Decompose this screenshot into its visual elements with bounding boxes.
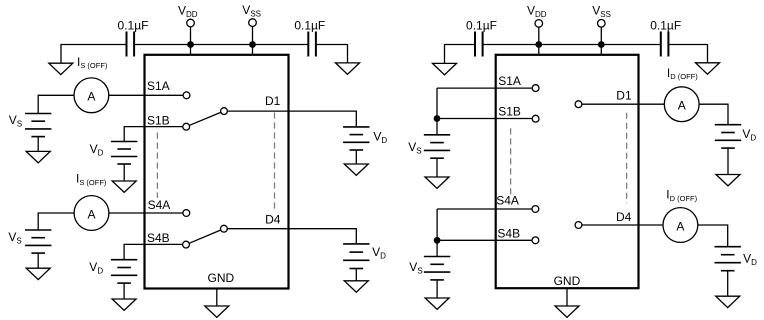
svg-text:IS (OFF): IS (OFF)	[77, 55, 108, 70]
wire: D1 to VD2	[228, 111, 357, 127]
label: VS1	[9, 113, 22, 129]
ground: below VD1	[112, 181, 136, 192]
svg-text:S4B: S4B	[497, 226, 520, 240]
svg-text:VS: VS	[9, 113, 22, 129]
wire: ammeter A2 to VS2	[38, 213, 74, 230]
wire: source tie vertical S4A/S4B	[436, 209, 438, 257]
ground: GND pin (left)	[205, 306, 229, 317]
svg-text:ID (OFF): ID (OFF)	[666, 188, 697, 203]
capacitor C3 0.1uF (right circuit left bypass)	[475, 32, 483, 57]
junction: VSS node (right)	[598, 41, 605, 48]
svg-text:IS (OFF): IS (OFF)	[76, 172, 107, 187]
svg-text:VD: VD	[90, 142, 104, 158]
wire: C2 to top-right ground drop	[316, 45, 348, 63]
wire: VSS node to C4	[601, 44, 661, 46]
IC body U2 (right DUT box)	[496, 55, 639, 288]
label: C4 value 0.1µF	[650, 18, 681, 32]
label: ID(OFF) upper	[667, 66, 698, 81]
pin D4 (right)	[575, 222, 582, 229]
wire: VD1 to pin S1B	[124, 127, 182, 142]
label: VDD (right)	[527, 4, 547, 20]
wire: ammeter A1 to pin S1A	[109, 94, 183, 96]
label: VSS (right)	[592, 4, 611, 20]
svg-text:S4A: S4A	[496, 194, 519, 208]
svg-text:VSS: VSS	[592, 4, 611, 20]
left circuit: switch leakage test (IS OFF)	[8, 3, 387, 318]
battery VD5	[715, 125, 741, 175]
pin S1A (left)	[183, 92, 190, 99]
pin S4A (left)	[183, 210, 190, 217]
right circuit: drain leakage test (ID OFF)	[408, 4, 757, 318]
label: S4B (right)	[497, 226, 520, 240]
svg-text:VDD: VDD	[527, 4, 547, 20]
pin D1 (right)	[575, 101, 582, 108]
battery VS4	[424, 257, 450, 299]
label: IS(OFF) lower	[76, 172, 107, 187]
junction: VDD node (left)	[187, 41, 194, 48]
dashed line: D-side channels 2..3 (left box)	[274, 112, 276, 208]
battery VS1	[25, 114, 51, 152]
pin S1B (right)	[532, 115, 539, 122]
label: S4B (left)	[147, 231, 170, 245]
label: C3 value 0.1µF	[466, 18, 497, 32]
svg-text:A: A	[676, 219, 684, 233]
label: S1A (right)	[498, 74, 521, 88]
label: VSS (left)	[242, 3, 261, 19]
label: D4 (right)	[616, 210, 632, 224]
ground: GND pin (right)	[555, 306, 579, 317]
ground: top-left	[49, 63, 73, 74]
VDD pin terminal (left)	[187, 19, 195, 55]
ground: below VS1	[26, 151, 50, 162]
junction: S4B tie node	[434, 237, 441, 244]
svg-text:A: A	[87, 90, 95, 104]
svg-text:GND: GND	[208, 271, 235, 285]
label: C2 value 0.1µF	[294, 18, 325, 32]
wire: C1 to VDD node	[134, 44, 190, 46]
battery VS2	[25, 230, 51, 268]
ground: below VD4	[344, 281, 368, 292]
wire: tie to pin S4A (right)	[437, 208, 532, 210]
pin S1B (left)	[183, 123, 190, 130]
battery VD1	[111, 142, 137, 182]
svg-text:VD: VD	[742, 127, 756, 143]
svg-text:S1A: S1A	[498, 74, 521, 88]
switch blade S4B to D4	[189, 230, 220, 243]
svg-text:VS: VS	[8, 230, 21, 246]
VSS pin terminal (right)	[598, 20, 606, 55]
svg-text:0.1µF: 0.1µF	[118, 18, 149, 32]
svg-text:VD: VD	[743, 252, 757, 268]
svg-text:VD: VD	[373, 129, 387, 145]
ground: below VS3	[425, 177, 449, 188]
svg-text:VS: VS	[408, 140, 421, 156]
wire: tie to pin S4B (right)	[437, 239, 532, 241]
label: S4A (right)	[496, 194, 519, 208]
ground: below VS4	[425, 298, 449, 309]
ammeter A1 (IS OFF upper)	[74, 78, 109, 113]
svg-text:0.1µF: 0.1µF	[294, 18, 325, 32]
svg-text:S1B: S1B	[498, 105, 521, 119]
svg-text:VD: VD	[89, 260, 103, 276]
svg-text:D1: D1	[265, 94, 281, 108]
pin S4A (right)	[532, 206, 539, 213]
label: VD1	[90, 142, 104, 158]
label: ID(OFF) lower	[666, 188, 697, 203]
ammeter A3 (ID OFF upper)	[664, 87, 699, 122]
junction: VDD node (right)	[535, 41, 542, 48]
label: S1B (right)	[498, 105, 521, 119]
wire: D4 to VD4	[228, 229, 357, 244]
label: D4 (left)	[265, 213, 281, 227]
battery VD6	[715, 247, 741, 297]
wire: source tie vertical S1A/S1B	[436, 88, 438, 135]
svg-text:S4A: S4A	[148, 198, 171, 212]
label: S1B (left)	[147, 114, 170, 128]
pin S1A (right)	[532, 85, 539, 92]
battery VD3	[111, 260, 137, 299]
ground: top-right of left circuit	[336, 63, 360, 74]
label: D1 (left)	[265, 94, 281, 108]
VSS pin terminal (left)	[249, 19, 257, 55]
wire: ammeter A4 to VD6	[698, 225, 728, 247]
wire: VSS node to C2	[253, 44, 309, 46]
svg-text:D4: D4	[265, 213, 281, 227]
svg-text:A: A	[678, 99, 686, 113]
IC body U1 (left DUT box)	[145, 55, 289, 289]
label: S4A (left)	[148, 198, 171, 212]
dashed line: S-side channels 2..3 (right box)	[510, 128, 512, 198]
capacitor C1 0.1uF (left bypass)	[127, 32, 135, 57]
switch pole circle D4 (left)	[221, 225, 228, 232]
wire: VDD node to VSS node (right)	[539, 44, 602, 46]
svg-text:D1: D1	[616, 88, 632, 102]
label: IS(OFF) upper	[77, 55, 108, 70]
battery VD2	[343, 127, 369, 164]
wire: top-left ground drop to C3	[445, 45, 476, 64]
ground: below VD5	[716, 175, 740, 186]
VDD pin terminal (right)	[535, 20, 543, 55]
battery VS3	[424, 135, 450, 177]
svg-text:VDD: VDD	[178, 3, 198, 19]
wire: VD3 to pin S4B	[124, 244, 182, 259]
svg-text:VSS: VSS	[242, 3, 261, 19]
wire: tie to pin S1A (right)	[437, 87, 532, 89]
battery VD4	[343, 244, 369, 281]
label: VDD (left)	[178, 3, 198, 19]
svg-text:0.1µF: 0.1µF	[650, 18, 681, 32]
wire: C3 to VDD node (right)	[483, 44, 539, 46]
svg-text:ID (OFF): ID (OFF)	[667, 66, 698, 81]
label: VD6	[743, 252, 757, 268]
capacitor C2 0.1uF (left circuit right bypass)	[308, 32, 316, 57]
switch pole circle D1 (left)	[221, 108, 228, 115]
label: GND (left)	[208, 271, 235, 285]
wire: GND pin stem (right)	[566, 288, 568, 306]
ground: top-right	[696, 63, 720, 74]
wire: C4 to top-right ground drop	[668, 45, 707, 63]
label: VS4	[409, 260, 422, 276]
svg-text:S4B: S4B	[147, 231, 170, 245]
junction: S1B tie node	[434, 115, 441, 122]
ammeter A2 (IS OFF lower)	[74, 196, 109, 231]
wire: ammeter A2 to pin S4A	[109, 212, 183, 214]
svg-text:D4: D4	[616, 210, 632, 224]
wire: D1 pin to ammeter A3	[582, 103, 664, 105]
pin S4B (left)	[183, 241, 190, 248]
label: VD2	[373, 129, 387, 145]
ground: below VD6	[716, 296, 740, 307]
wire: ammeter A1 to VS1	[38, 95, 73, 113]
dashed line: S-side channels 2..3 (left box)	[156, 133, 158, 199]
wire: top-left ground drop to C1	[61, 45, 127, 64]
svg-text:VD: VD	[372, 245, 386, 261]
svg-text:S1B: S1B	[147, 114, 170, 128]
label: D1 (right)	[616, 88, 632, 102]
capacitor C4 0.1uF (right bypass)	[661, 32, 669, 57]
wire: GND pin stem (left)	[216, 289, 218, 307]
pin S4B (right)	[532, 237, 539, 244]
label: C1 value 0.1µF	[118, 18, 149, 32]
svg-text:VS: VS	[409, 260, 422, 276]
wire: ammeter A3 to VD5	[699, 104, 728, 125]
wire: tie to pin S1B (right)	[437, 118, 532, 120]
label: VD3	[89, 260, 103, 276]
switch blade S1B to D1	[190, 112, 221, 125]
label: VS2	[8, 230, 21, 246]
svg-text:A: A	[87, 207, 95, 221]
label: VD5	[742, 127, 756, 143]
junction: VSS node (left)	[249, 41, 256, 48]
wire: D4 pin to ammeter A4	[582, 224, 663, 226]
ground: below VS2	[26, 268, 50, 279]
label: VD4	[372, 245, 386, 261]
label: S1A (left)	[147, 79, 170, 93]
ground: top-left of right circuit	[433, 63, 457, 74]
svg-text:0.1µF: 0.1µF	[466, 18, 497, 32]
dashed line: D-side channels 2..3 (right box)	[626, 113, 628, 204]
ground: below VD3	[112, 299, 136, 310]
label: VS3	[408, 140, 421, 156]
svg-text:S1A: S1A	[147, 79, 170, 93]
svg-text:GND: GND	[554, 274, 581, 288]
wire: VDD node to VSS node (left)	[191, 44, 253, 46]
label: GND (right)	[554, 274, 581, 288]
ammeter A4 (ID OFF lower)	[663, 208, 698, 243]
ground: below VD2	[344, 164, 368, 175]
